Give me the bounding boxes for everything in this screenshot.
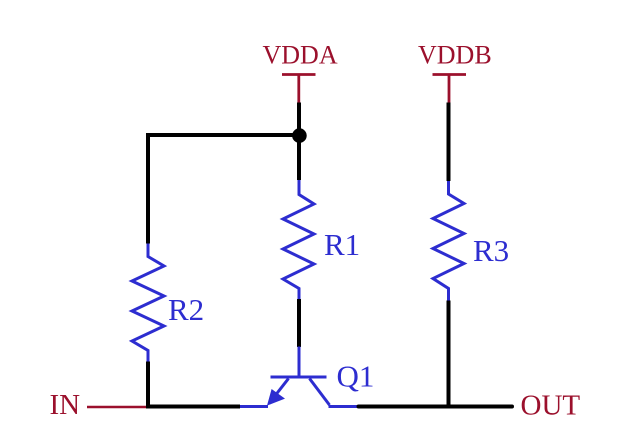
wire R1 bottom to Q1 [297, 299, 301, 347]
resistor R2 [132, 244, 164, 362]
svg-text:OUT: OUT [521, 390, 581, 422]
svg-text:VDDA: VDDA [263, 41, 338, 70]
svg-text:R2: R2 [168, 292, 204, 327]
wire top horizontal [146, 133, 299, 137]
svg-text:VDDB: VDDB [418, 41, 492, 70]
transistor Q1 emitter arrowhead [267, 389, 285, 406]
resistor R1 [283, 180, 314, 299]
svg-text:R3: R3 [473, 233, 509, 268]
power symbol VDDA [282, 75, 316, 103]
svg-text:Q1: Q1 [337, 359, 375, 394]
pin wire IN [87, 406, 148, 408]
wire bottom right horizontal [359, 405, 513, 409]
wire VDDA to junction and R1 top [297, 103, 301, 181]
svg-text:R1: R1 [324, 227, 360, 262]
wire R3 bottom to OUT line [447, 301, 451, 409]
junction dot [292, 128, 307, 143]
wire R2 bottom vertical [146, 362, 150, 409]
transistor Q1 [240, 347, 359, 407]
power symbol VDDB [433, 75, 467, 103]
wire bottom left horizontal [146, 405, 240, 409]
svg-text:IN: IN [50, 389, 81, 421]
wire VDDB to R3 top [447, 103, 451, 182]
resistor R3 [433, 181, 464, 301]
wire left vertical to R2 [146, 133, 150, 244]
